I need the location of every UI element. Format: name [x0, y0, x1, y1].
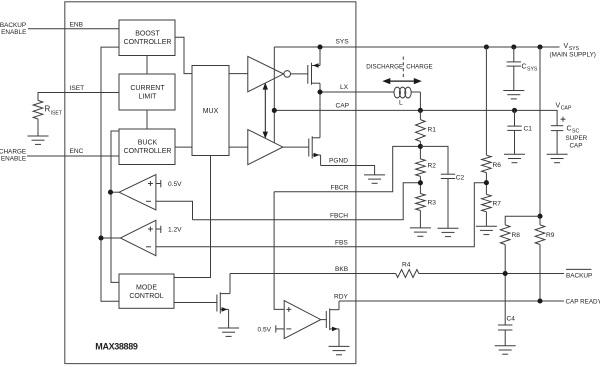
svg-text:LX: LX — [340, 84, 349, 91]
junction R8 tee — [537, 214, 542, 219]
svg-text:R7: R7 — [493, 201, 502, 208]
svg-text:SYS: SYS — [336, 39, 350, 46]
junction R8-BKB-C4 — [503, 271, 508, 276]
wire LX — [320, 91, 394, 93]
svg-text:CONTROLLER: CONTROLLER — [124, 39, 172, 46]
block BOOST CONTROLLER U-boost — [119, 20, 175, 56]
wire CURRENT LIMIT to BUCK — [146, 110, 148, 129]
wire BKB / BACKUP line — [230, 273, 396, 275]
wire A3 output to Q4 gate — [321, 319, 327, 321]
block CURRENT LIMIT — [119, 74, 175, 110]
svg-text:CAP READY: CAP READY — [566, 299, 600, 306]
svg-text:C1: C1 — [524, 126, 533, 133]
resistor R3 — [416, 194, 426, 211]
wire SYS to R9/R8 — [539, 47, 541, 225]
svg-text:ENABLE: ENABLE — [1, 156, 26, 163]
svg-text:ENC: ENC — [70, 148, 84, 155]
svg-text:R6: R6 — [493, 162, 502, 169]
wire MUX to driver2 — [229, 146, 248, 148]
wire ISET — [38, 93, 119, 101]
dashed divider — [402, 57, 404, 79]
junction CAP-C1 — [512, 108, 517, 113]
wire MUX to driver1 — [229, 73, 248, 75]
junction FBS node — [484, 180, 489, 185]
svg-text:R4: R4 — [402, 262, 411, 269]
svg-text:BACKUP: BACKUP — [566, 272, 592, 279]
ground C4 — [495, 346, 516, 354]
junction L-R1-CAP — [418, 108, 423, 113]
junction R9-RDY — [537, 298, 542, 303]
wire driver1 to Q1 gate — [291, 73, 308, 75]
node CHARGE ENABLE label — [0, 148, 26, 162]
wire bus comparator2 output to BOOST and MODE CONTROL — [101, 47, 119, 301]
junction SYS-R9 — [537, 44, 542, 49]
svg-text:BKB: BKB — [335, 266, 349, 273]
svg-text:LIMIT: LIMIT — [139, 94, 158, 101]
junction SYS-CSYS — [511, 44, 516, 49]
wire ENB input — [28, 28, 119, 30]
wire RDY / CAP READY line — [339, 300, 564, 302]
block MUX — [192, 66, 229, 156]
wire SYS rail — [274, 46, 559, 48]
resistor RISET — [33, 100, 43, 119]
wire LX to CAP node — [419, 92, 421, 110]
svg-text:RDY: RDY — [334, 294, 349, 301]
wire FBCR — [274, 146, 420, 191]
svg-text:FBCH: FBCH — [330, 212, 348, 219]
svg-text:CHARGE: CHARGE — [0, 148, 26, 155]
svg-text:MODE: MODE — [136, 284, 157, 291]
svg-text:1.2V: 1.2V — [168, 227, 182, 234]
svg-text:C: C — [567, 126, 572, 133]
ground R3 — [410, 228, 431, 236]
transistor Q4 (RDY open drain) — [326, 301, 339, 346]
wire bus comparator1 output to BUCK and MODE CONTROL — [111, 131, 119, 282]
direction double arrow — [382, 78, 422, 84]
wire ENC input — [27, 155, 119, 157]
junction FBCR node — [418, 144, 423, 149]
svg-text:FBS: FBS — [335, 239, 348, 246]
junction SYS-R6 — [484, 44, 489, 49]
junction A1 out on bus — [108, 190, 113, 195]
svg-text:SYS: SYS — [527, 67, 538, 73]
transistor Q1 (SYS-LX switch) — [308, 47, 320, 92]
svg-text:R2: R2 — [428, 163, 437, 170]
reference 0.5V for A1 — [156, 183, 161, 185]
ground Q4 source — [329, 346, 350, 354]
svg-text:C2: C2 — [456, 174, 465, 181]
svg-text:R1: R1 — [428, 127, 437, 134]
svg-text:MUX: MUX — [203, 108, 219, 115]
svg-text:CONTROL: CONTROL — [129, 293, 163, 300]
junction FBCH node — [418, 180, 423, 185]
gate drive coupling double arrow — [263, 83, 268, 139]
transistor Q2 (LX-PGND switch) — [309, 92, 321, 166]
block BUCK CONTROLLER — [119, 129, 175, 165]
svg-text:DISCHARGE: DISCHARGE — [366, 64, 403, 71]
resistor R8 — [505, 216, 540, 225]
ground Q3 source — [218, 328, 239, 336]
buffer driver2 — [248, 130, 283, 165]
svg-text:(MAIN SUPPLY): (MAIN SUPPLY) — [550, 52, 596, 59]
svg-text:ENABLE: ENABLE — [1, 29, 26, 36]
svg-text:CAP: CAP — [561, 106, 572, 112]
svg-text:PGND: PGND — [329, 158, 348, 165]
svg-text:R9: R9 — [546, 232, 555, 239]
svg-text:ISET: ISET — [70, 85, 85, 92]
inductor L — [394, 87, 411, 98]
svg-text:C: C — [522, 64, 527, 71]
svg-text:R8: R8 — [512, 232, 521, 239]
svg-text:ENB: ENB — [70, 22, 84, 29]
svg-text:FBCR: FBCR — [331, 184, 349, 191]
wire BUCK output to MUX — [175, 146, 192, 148]
junction A2 out on bus — [98, 235, 103, 240]
wire MODE CONTROL to Q3 gate — [174, 302, 217, 304]
svg-text:CONTROLLER: CONTROLLER — [124, 148, 172, 155]
IC body MAX38889 outline — [65, 2, 356, 364]
svg-text:CURRENT: CURRENT — [130, 85, 165, 92]
resistor R4 — [396, 270, 419, 278]
wire MUX select from MODE CONTROL — [174, 156, 211, 278]
wire FBCH — [193, 183, 421, 220]
op-amp comparator A3 (cap ready) — [284, 301, 321, 339]
svg-text:0.5V: 0.5V — [258, 327, 272, 334]
reference 0.5V for A3 — [275, 325, 277, 332]
svg-text:BOOST: BOOST — [135, 31, 160, 38]
svg-text:C4: C4 — [507, 316, 516, 323]
block MODE CONTROL — [119, 274, 174, 308]
wire PGND — [321, 166, 375, 175]
op-amp comparator A1 0.5V — [119, 175, 156, 211]
svg-text:BACKUP: BACKUP — [0, 22, 26, 29]
wire driver2 to Q2 gate — [283, 146, 309, 148]
reference 1.2V for A2 — [156, 228, 161, 230]
svg-text:CAP: CAP — [570, 143, 583, 150]
capacitor C4 — [498, 325, 512, 330]
wire FBS — [156, 183, 487, 247]
resistor R9 — [535, 225, 545, 245]
svg-text:SC: SC — [572, 129, 579, 135]
wire SYS to CAP node (crosses driver) — [273, 47, 275, 143]
wire BOOST output to MUX — [175, 37, 192, 73]
wire FBCR to A3 plus — [274, 192, 284, 310]
resistor R2 — [416, 159, 426, 176]
svg-text:MAX38889: MAX38889 — [95, 341, 138, 351]
svg-text:ISET: ISET — [51, 111, 63, 117]
svg-text:CHARGE: CHARGE — [406, 64, 432, 71]
ground R7 — [476, 226, 497, 234]
junction Q1 drain on SYS — [317, 44, 322, 49]
wire comparator A1 minus to FBCH — [156, 201, 193, 220]
capacitor C2 branch — [420, 146, 448, 174]
ground CSC — [547, 154, 568, 162]
wire BOOST to CURRENT LIMIT — [146, 56, 148, 75]
ground RISET — [28, 136, 49, 144]
op-amp comparator A2 1.2V — [120, 220, 155, 255]
svg-text:BUCK: BUCK — [138, 140, 158, 147]
ground C1 — [504, 154, 525, 162]
capacitor C1 — [514, 110, 516, 126]
wire CAP rail — [274, 110, 557, 125]
transistor Q3 (BKB pulldown) — [217, 274, 230, 329]
buffer driver1 (inverting) — [248, 56, 284, 91]
svg-text:SUPER: SUPER — [566, 135, 588, 142]
junction LX node — [317, 89, 322, 94]
resistor R6 from SYS — [485, 47, 487, 155]
svg-text:L: L — [399, 100, 403, 107]
resistor R7 — [482, 194, 492, 211]
junction CAP internal — [272, 108, 277, 113]
capacitor CSC super cap — [561, 117, 566, 122]
node BACKUP ENABLE label — [0, 22, 26, 36]
wire comparator A2 output — [101, 237, 120, 239]
svg-text:R3: R3 — [428, 200, 437, 207]
svg-text:CAP: CAP — [336, 102, 350, 109]
ground PGND — [364, 175, 385, 183]
wire comparator A1 output — [111, 191, 120, 193]
resistor R1 — [419, 110, 421, 119]
capacitor CSYS — [513, 47, 515, 62]
ground C2 — [438, 228, 459, 236]
ground CSYS — [503, 91, 524, 99]
svg-text:0.5V: 0.5V — [168, 181, 182, 188]
